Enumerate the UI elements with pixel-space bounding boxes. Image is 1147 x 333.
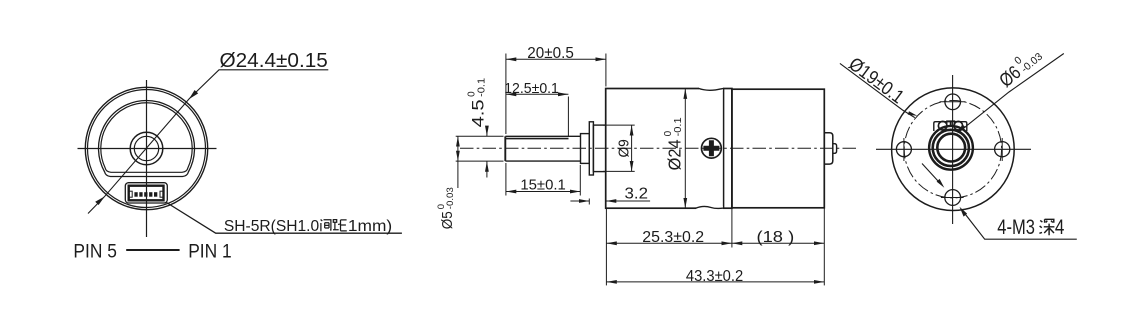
dim 3.2 left arrow — [570, 200, 589, 202]
svg-text:4.5: 4.5 — [470, 99, 488, 127]
dim text 4.5 0/-0.1 rotated — [467, 77, 488, 127]
shaft bushing outer circle — [130, 132, 163, 165]
screw hole left — [896, 142, 911, 157]
dim line 43.3±0.2 — [606, 281, 824, 283]
tab right ear — [954, 121, 963, 130]
connector outer shell — [125, 183, 167, 203]
dim line 25.3±0.2 — [606, 242, 732, 244]
leader Ø19 — [840, 63, 915, 117]
dim text Ø24 0/-0.1 rotated — [663, 117, 685, 170]
ext line motor rear below — [823, 207, 825, 286]
shaft outline — [505, 136, 580, 161]
centerline vertical — [146, 80, 148, 237]
ext line 3.2 left — [588, 199, 590, 205]
dim text Ø5 0/-0.03 rotated — [436, 187, 456, 229]
svg-text:SH-5R(SH1.0: SH-5R(SH1.0 — [224, 218, 320, 235]
dim line Ø9 — [631, 125, 633, 171]
tick bottom hole — [941, 197, 964, 199]
gearbox bottom wave — [696, 206, 723, 210]
ext line body left below — [605, 208, 607, 285]
svg-text:20±0.5: 20±0.5 — [527, 45, 574, 62]
motor body — [732, 89, 824, 208]
svg-text:12.5±0.1: 12.5±0.1 — [504, 80, 559, 97]
svg-text:Ø9: Ø9 — [616, 139, 633, 157]
dim line Ø5 — [457, 136, 459, 161]
screw cross — [703, 140, 719, 156]
screw hole top — [945, 94, 961, 110]
svg-text:PIN 5: PIN 5 — [73, 241, 117, 262]
dim line 15±0.1 — [506, 191, 580, 193]
gearbox body — [606, 89, 732, 209]
glyph shen 深 — [1039, 219, 1054, 235]
leader tail Ø5 — [457, 161, 459, 188]
dim 4.5 upper arrow — [486, 127, 488, 137]
centerline vertical — [952, 75, 954, 224]
connector pin 1..5 — [134, 192, 157, 197]
svg-text:-0.03: -0.03 — [445, 187, 456, 209]
dim line Ø24 — [684, 89, 686, 209]
bolt circle Ø19 dash-dot — [904, 101, 1001, 198]
svg-text:Ø5: Ø5 — [439, 211, 456, 229]
dim line (18) — [732, 242, 824, 244]
ext lines shaft diameter — [456, 136, 504, 161]
outer circle Ø24.4 — [85, 87, 207, 209]
retaining ring circle — [933, 130, 969, 166]
svg-text:(18 ): (18 ) — [757, 229, 795, 246]
arrow Ø19 — [908, 111, 918, 116]
tick top hole — [940, 101, 966, 103]
sensor tab outline — [934, 122, 967, 131]
shaft flat edge line — [505, 138, 568, 140]
arrow Ø6 — [957, 124, 966, 133]
dash between pin labels — [126, 249, 179, 251]
label Ø19±0.1 rotated — [845, 54, 908, 108]
leader arrow lower-left — [95, 196, 105, 205]
label Ø6 0/-0.03 rotated — [994, 42, 1046, 91]
ext line body face top — [605, 54, 607, 87]
ext line seam below — [731, 208, 733, 247]
motor end cap — [824, 133, 833, 164]
washer at shaft root — [581, 134, 590, 164]
svg-text:-0.1: -0.1 — [477, 77, 488, 96]
glyph ju 距 — [333, 220, 347, 231]
leader 4-M3 — [963, 211, 1077, 239]
tab center squares — [947, 121, 955, 125]
tick left hole — [903, 138, 905, 161]
boss outer circle — [929, 126, 973, 170]
svg-text:43.3±0.2: 43.3±0.2 — [686, 268, 743, 285]
housing horseshoe outer — [99, 100, 195, 176]
leader arrow upper-right — [189, 90, 198, 99]
inner leader arrow to bottom hole — [922, 164, 941, 185]
tick right hole — [1001, 138, 1003, 161]
arrow 4-M3 — [960, 207, 968, 217]
shaft bore circle — [937, 134, 965, 162]
svg-text:-0.1: -0.1 — [673, 117, 684, 136]
svg-text:15±0.1: 15±0.1 — [520, 176, 565, 193]
centerline horizontal — [876, 148, 1031, 150]
gearbox/motor seam line — [723, 89, 725, 209]
inner rim circle — [88, 90, 206, 208]
dim text Ø9 rotated — [616, 139, 633, 157]
dim line 20±0.5 — [506, 58, 606, 60]
retaining collar — [589, 122, 593, 175]
leader SH-5R — [167, 203, 402, 234]
glyph jian 间 — [321, 220, 331, 232]
dim 4.5 lower arrow — [486, 161, 488, 177]
centerline horizontal — [78, 148, 217, 150]
tab left ear — [938, 121, 947, 130]
svg-text:25.3±0.2: 25.3±0.2 — [642, 229, 704, 246]
gearbox top wave — [699, 87, 723, 91]
svg-text:Ø24: Ø24 — [665, 139, 685, 170]
svg-text:PIN 1: PIN 1 — [188, 241, 232, 262]
screw head — [702, 138, 722, 158]
motor shaft tip — [833, 144, 837, 154]
screw hole bottom — [945, 190, 961, 206]
shaft hole circle — [134, 136, 158, 160]
ext line flat end — [567, 97, 569, 137]
connector side notches — [129, 191, 132, 197]
ext line below shaft tip — [505, 163, 507, 196]
bearing boss Ø9 — [593, 125, 605, 172]
axis centerline — [460, 147, 858, 149]
screw hole right — [995, 142, 1010, 157]
ext lines boss Ø9 — [603, 125, 635, 171]
connector inner body — [129, 186, 164, 201]
leader Ø6 — [960, 54, 1064, 132]
svg-text:Ø24.4±0.15: Ø24.4±0.15 — [220, 50, 328, 72]
ext line shaft tip vertical — [505, 54, 507, 135]
svg-text:1mm): 1mm) — [348, 218, 392, 235]
dim line 12.5±0.1 — [506, 93, 569, 95]
svg-text:4: 4 — [1055, 216, 1065, 239]
diameter leader line Ø24.4 — [88, 70, 328, 214]
face outer circle — [892, 88, 1015, 211]
svg-text:4-M3: 4-M3 — [997, 216, 1035, 239]
ext line washer right — [579, 165, 581, 196]
dim 3.2 right arrow+tail — [606, 200, 650, 202]
svg-text:3.2: 3.2 — [625, 186, 649, 203]
housing horseshoe inner — [101, 103, 192, 173]
